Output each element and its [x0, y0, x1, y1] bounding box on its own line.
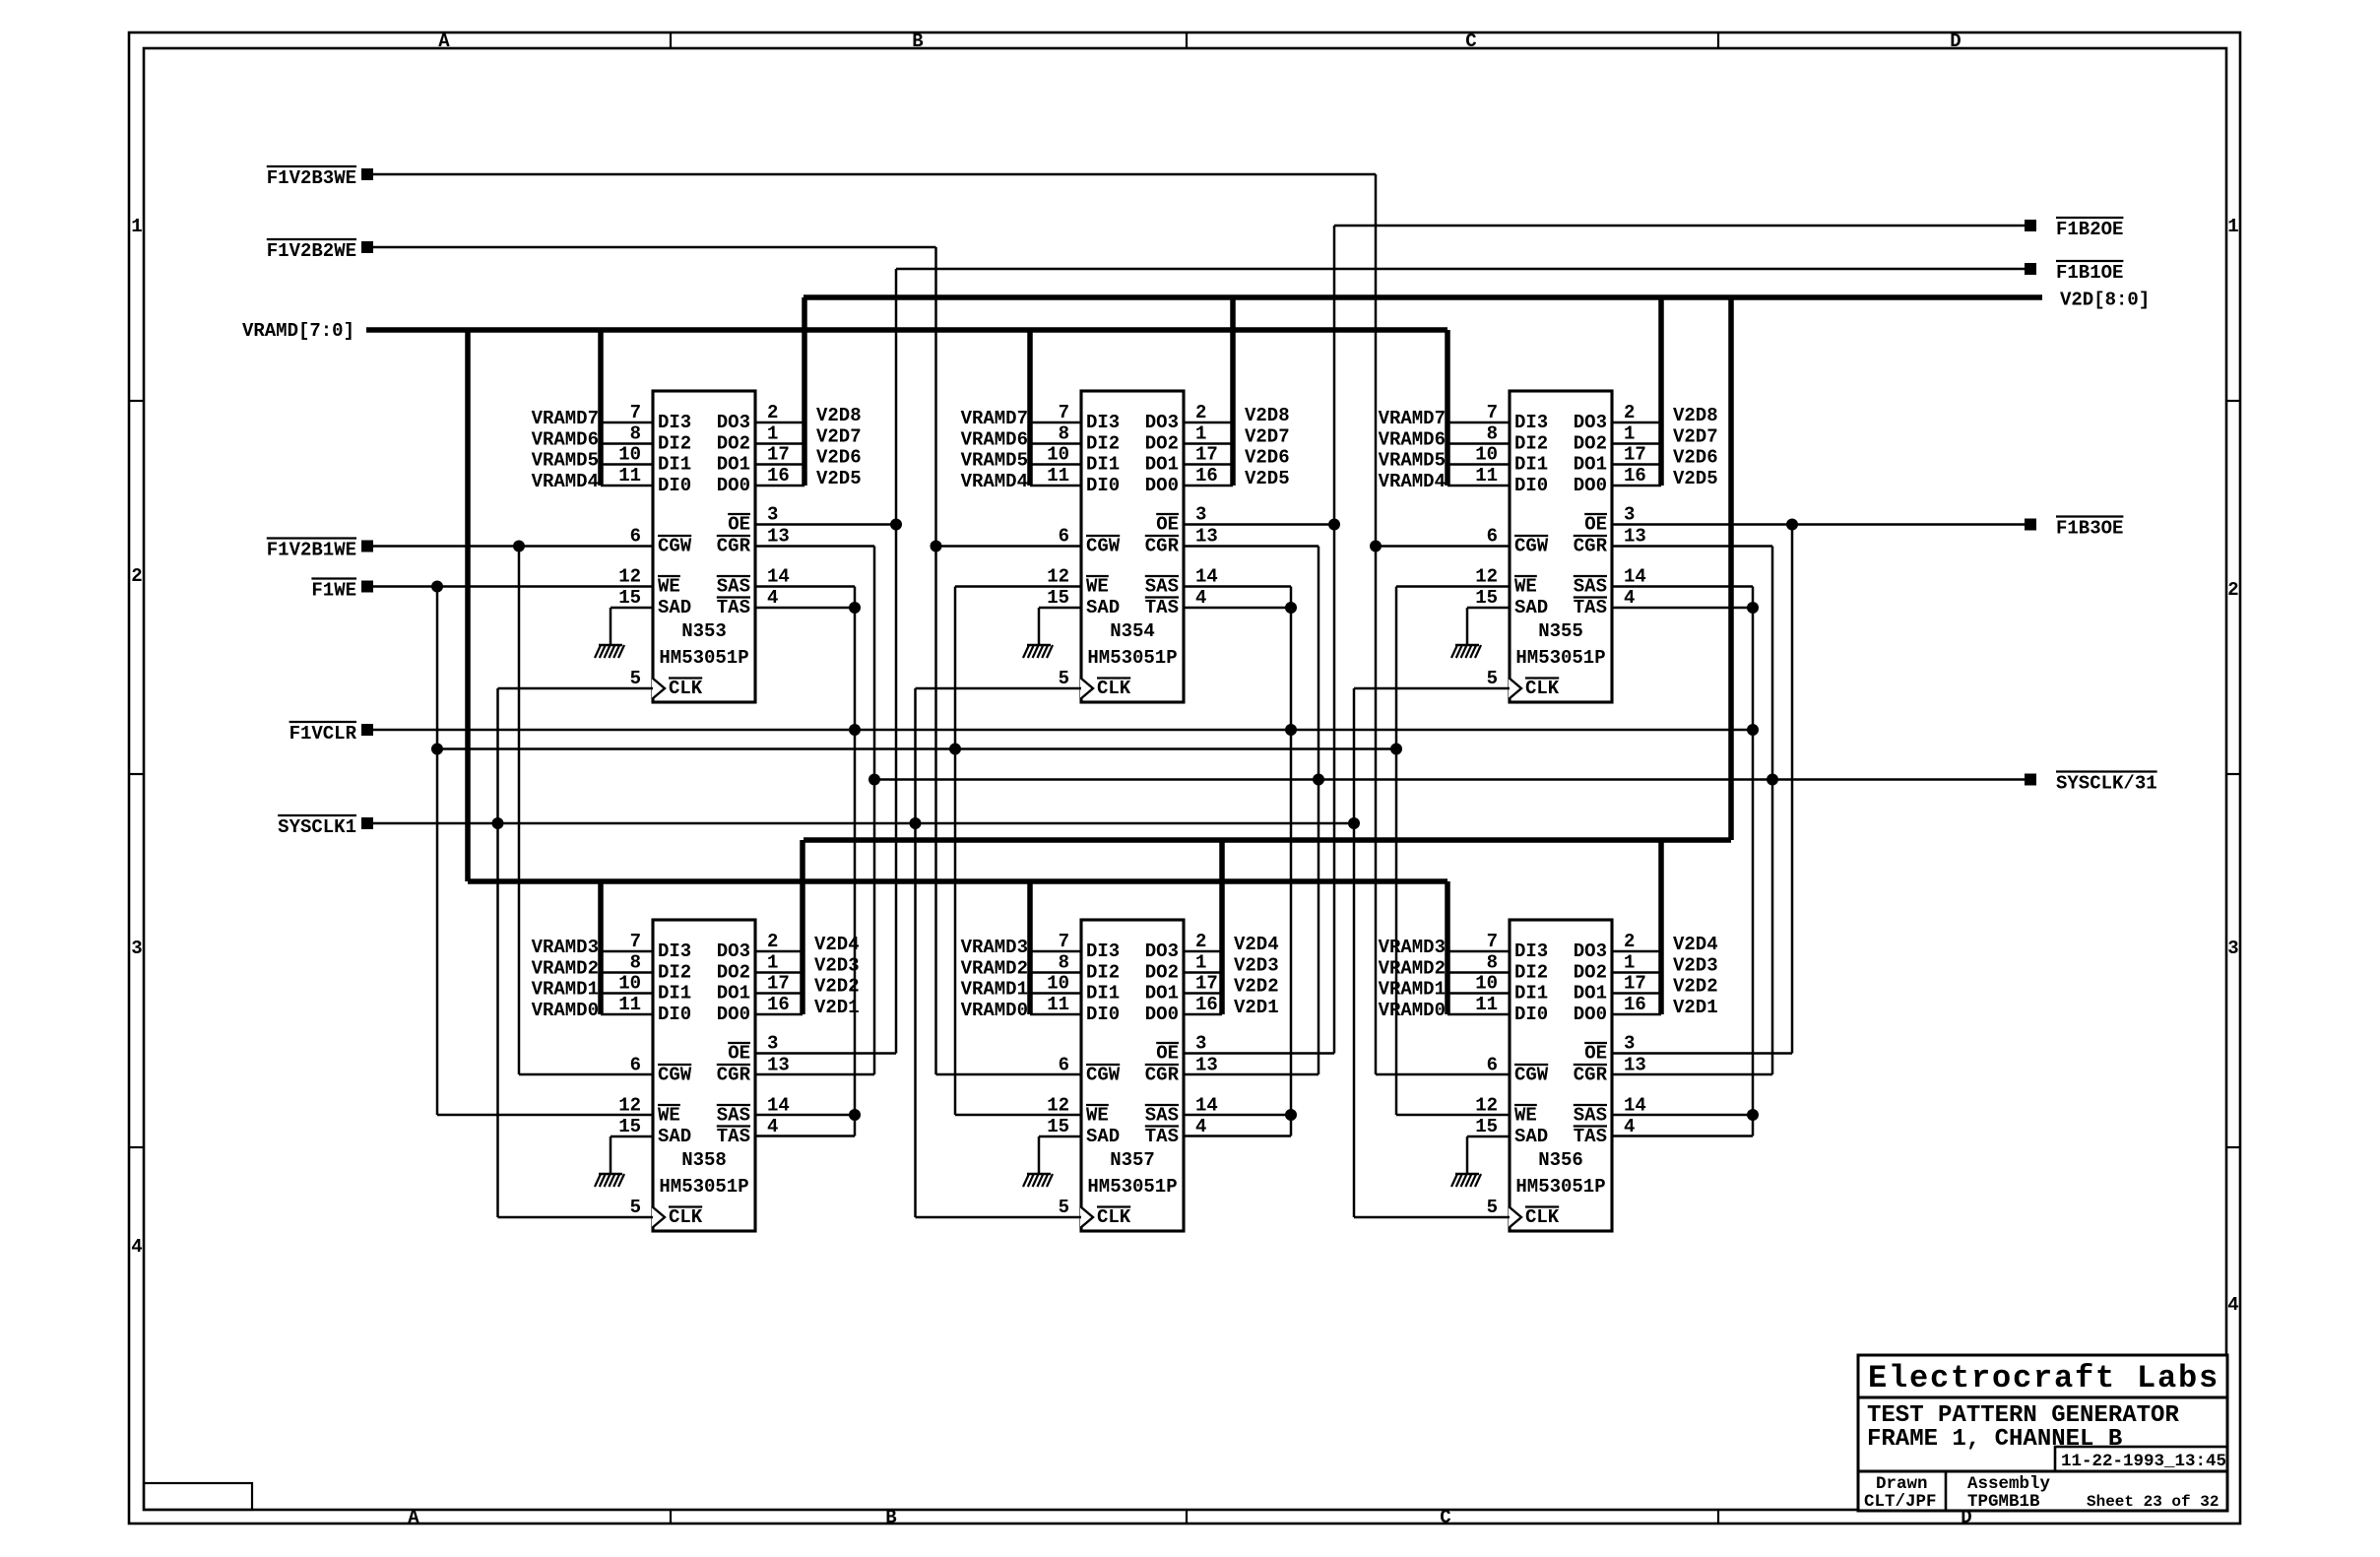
- svg-text:VRAMD[7:0]: VRAMD[7:0]: [242, 320, 354, 342]
- wires VRAMD7..VRAMD4 into N355 DI3..DI0: [1379, 408, 1510, 492]
- svg-text:HM53051P: HM53051P: [659, 1176, 748, 1198]
- svg-text:17: 17: [1195, 444, 1218, 466]
- svg-text:F1V2B1WE: F1V2B1WE: [267, 540, 356, 561]
- svg-text:V2D3: V2D3: [1673, 955, 1718, 977]
- svg-text:10: 10: [618, 444, 641, 466]
- svg-text:DO1: DO1: [1574, 983, 1607, 1005]
- svg-text:VRAMD7: VRAMD7: [532, 408, 599, 429]
- svg-text:SYSCLK1: SYSCLK1: [278, 816, 356, 838]
- svg-text:V2D6: V2D6: [816, 447, 862, 469]
- svg-text:DO2: DO2: [717, 962, 750, 984]
- svg-text:12: 12: [1475, 1095, 1498, 1117]
- svg-text:DI1: DI1: [658, 983, 691, 1005]
- wires VRAMD3..VRAMD0 into N356 DI3..DI0: [1379, 937, 1510, 1021]
- svg-text:VRAMD1: VRAMD1: [961, 979, 1028, 1001]
- svg-text:VRAMD0: VRAMD0: [532, 1000, 599, 1021]
- svg-text:3: 3: [131, 938, 142, 959]
- svg-text:7: 7: [1487, 402, 1498, 423]
- IC N356 HM53051P (bottom row): [1475, 920, 1646, 1231]
- ground at SAD pin of N357: [1023, 1136, 1081, 1187]
- svg-text:FRAME 1, CHANNEL B: FRAME 1, CHANNEL B: [1867, 1426, 2122, 1453]
- svg-text:OE: OE: [728, 514, 750, 536]
- svg-text:VRAMD3: VRAMD3: [1379, 937, 1446, 958]
- svg-text:TPGMB1B: TPGMB1B: [1967, 1492, 2040, 1512]
- svg-text:N358: N358: [681, 1149, 727, 1171]
- svg-text:VRAMD4: VRAMD4: [1379, 471, 1446, 492]
- svg-text:DO0: DO0: [1574, 1004, 1607, 1025]
- svg-text:5: 5: [1487, 668, 1498, 689]
- svg-text:1: 1: [1195, 952, 1206, 974]
- svg-text:5: 5: [1059, 668, 1069, 689]
- svg-text:DO0: DO0: [1145, 1004, 1179, 1025]
- svg-text:V2D[8:0]: V2D[8:0]: [2060, 290, 2150, 311]
- svg-text:VRAMD4: VRAMD4: [532, 471, 599, 492]
- svg-text:15: 15: [1047, 1116, 1069, 1137]
- svg-text:17: 17: [1195, 973, 1218, 995]
- svg-text:SAS: SAS: [1574, 576, 1607, 598]
- svg-text:4: 4: [2227, 1294, 2238, 1316]
- svg-text:13: 13: [1624, 1055, 1646, 1076]
- svg-text:4: 4: [1195, 1116, 1206, 1137]
- svg-text:SAS: SAS: [717, 576, 750, 598]
- svg-text:N357: N357: [1110, 1149, 1155, 1171]
- svg-text:7: 7: [1059, 931, 1069, 952]
- net F1VCLR: flag, rail y=741 tying SAS/TAS columns: [289, 722, 1759, 745]
- svg-text:CGR: CGR: [1574, 536, 1608, 557]
- svg-text:6: 6: [1059, 526, 1069, 548]
- svg-text:1: 1: [131, 216, 142, 237]
- svg-text:VRAMD3: VRAMD3: [532, 937, 599, 958]
- svg-text:DI1: DI1: [658, 454, 691, 476]
- svg-text:DO2: DO2: [1574, 962, 1607, 984]
- wires VRAMD7..VRAMD4 into N353 DI3..DI0: [532, 408, 653, 492]
- svg-text:CGW: CGW: [1514, 536, 1549, 557]
- net SYSCLK1: flag, rail y=836, CLK verticals of all ICs: [278, 688, 1510, 1217]
- svg-text:VRAMD0: VRAMD0: [961, 1000, 1028, 1021]
- svg-text:HM53051P: HM53051P: [1087, 647, 1177, 669]
- svg-text:DI0: DI0: [658, 1004, 691, 1025]
- svg-text:1: 1: [2227, 216, 2238, 237]
- svg-text:V2D6: V2D6: [1245, 447, 1290, 469]
- svg-text:VRAMD1: VRAMD1: [532, 979, 599, 1001]
- svg-text:SAD: SAD: [658, 1126, 691, 1147]
- svg-text:6: 6: [1487, 526, 1498, 548]
- svg-text:8: 8: [1487, 952, 1498, 974]
- wires VRAMD7..VRAMD4 into N354 DI3..DI0: [961, 408, 1081, 492]
- svg-text:VRAMD5: VRAMD5: [961, 450, 1028, 472]
- svg-text:VRAMD5: VRAMD5: [532, 450, 599, 472]
- svg-text:11: 11: [618, 465, 641, 487]
- svg-text:14: 14: [1624, 566, 1646, 588]
- svg-text:SAS: SAS: [1145, 1105, 1179, 1127]
- svg-text:10: 10: [1475, 444, 1498, 466]
- svg-text:15: 15: [618, 587, 641, 609]
- svg-text:V2D3: V2D3: [1234, 955, 1279, 977]
- svg-text:CGR: CGR: [717, 1065, 751, 1086]
- svg-text:DO2: DO2: [1145, 962, 1179, 984]
- svg-text:CGW: CGW: [658, 1065, 692, 1086]
- net F1V2B3WE: flag, rail y=177, drop to CGW of N355/N356: [267, 166, 1510, 1074]
- IC N355 HM53051P (top row): [1475, 391, 1646, 702]
- svg-text:12: 12: [1047, 566, 1069, 588]
- wires N353 DO3..DO0 to V2D8..V2D5: [755, 405, 862, 489]
- svg-text:SAD: SAD: [1086, 1126, 1120, 1147]
- svg-text:V2D7: V2D7: [1245, 426, 1290, 448]
- wires N355 DO3..DO0 to V2D8..V2D5: [1612, 405, 1718, 489]
- svg-text:1: 1: [1624, 423, 1635, 445]
- net SAS/TAS tie column 1 (N353/N358): [755, 587, 861, 1136]
- svg-text:4: 4: [767, 587, 778, 609]
- net SYSCLK/31: CGR pins of all ICs to right flag, rail y=791.5: [755, 547, 2157, 1075]
- svg-text:SAS: SAS: [1145, 576, 1179, 598]
- svg-text:17: 17: [1624, 444, 1646, 466]
- svg-text:14: 14: [767, 566, 790, 588]
- svg-text:11: 11: [1047, 465, 1069, 487]
- svg-text:HM53051P: HM53051P: [1087, 1176, 1177, 1198]
- svg-text:DI1: DI1: [1086, 454, 1120, 476]
- svg-text:DO0: DO0: [717, 1004, 750, 1025]
- svg-text:Assembly: Assembly: [1967, 1474, 2051, 1494]
- net SAS/TAS tie column 2 (N354/N357): [1184, 587, 1297, 1136]
- svg-text:DO2: DO2: [717, 433, 750, 455]
- svg-text:SAD: SAD: [1086, 597, 1120, 618]
- svg-text:VRAMD6: VRAMD6: [1379, 429, 1446, 451]
- svg-text:DO1: DO1: [717, 454, 750, 476]
- svg-text:V2D5: V2D5: [1245, 468, 1290, 489]
- svg-text:C: C: [1465, 31, 1476, 52]
- svg-text:5: 5: [1059, 1197, 1069, 1218]
- svg-text:2: 2: [1624, 931, 1635, 952]
- wires VRAMD3..VRAMD0 into N357 DI3..DI0: [961, 937, 1081, 1021]
- svg-text:12: 12: [1475, 566, 1498, 588]
- IC N353 HM53051P (top row): [618, 391, 790, 702]
- svg-text:DI3: DI3: [658, 941, 691, 962]
- ground at SAD pin of N354: [1023, 608, 1081, 658]
- svg-text:DO2: DO2: [1574, 433, 1607, 455]
- svg-text:V2D1: V2D1: [1234, 997, 1279, 1018]
- svg-text:DO3: DO3: [717, 941, 750, 962]
- svg-text:VRAMD2: VRAMD2: [1379, 958, 1446, 980]
- svg-text:VRAMD5: VRAMD5: [1379, 450, 1446, 472]
- svg-text:DO1: DO1: [1145, 983, 1179, 1005]
- svg-text:OE: OE: [1584, 1043, 1607, 1065]
- svg-text:CGW: CGW: [1514, 1065, 1549, 1086]
- svg-text:15: 15: [1475, 1116, 1498, 1137]
- svg-text:TAS: TAS: [717, 1126, 750, 1147]
- svg-text:11-22-1993_13:45: 11-22-1993_13:45: [2061, 1452, 2226, 1471]
- svg-text:B: B: [912, 31, 923, 52]
- svg-text:CLK: CLK: [1097, 678, 1131, 699]
- IC N357 HM53051P (bottom row): [1047, 920, 1218, 1231]
- svg-text:HM53051P: HM53051P: [1515, 647, 1605, 669]
- svg-text:2: 2: [767, 402, 778, 423]
- svg-text:11: 11: [1475, 465, 1498, 487]
- svg-text:WE: WE: [658, 576, 680, 598]
- svg-text:16: 16: [1195, 994, 1218, 1015]
- svg-text:CGW: CGW: [658, 536, 692, 557]
- svg-text:VRAMD2: VRAMD2: [532, 958, 599, 980]
- svg-text:VRAMD0: VRAMD0: [1379, 1000, 1446, 1021]
- svg-text:8: 8: [630, 423, 641, 445]
- wires N358 DO3..DO0 to V2D4..V2D1: [755, 934, 860, 1018]
- svg-text:DI2: DI2: [1086, 962, 1120, 984]
- svg-text:V2D1: V2D1: [814, 997, 860, 1018]
- svg-text:DI3: DI3: [1086, 412, 1120, 433]
- svg-text:VRAMD6: VRAMD6: [532, 429, 599, 451]
- svg-text:DI2: DI2: [658, 433, 691, 455]
- svg-text:13: 13: [1624, 526, 1646, 548]
- svg-text:N355: N355: [1538, 620, 1583, 642]
- svg-text:C: C: [1440, 1507, 1450, 1528]
- svg-text:4: 4: [1195, 587, 1206, 609]
- svg-text:SAS: SAS: [1574, 1105, 1607, 1127]
- svg-text:WE: WE: [1514, 1105, 1537, 1127]
- svg-text:4: 4: [131, 1236, 142, 1258]
- svg-text:OE: OE: [1584, 514, 1607, 536]
- wires N356 DO3..DO0 to V2D4..V2D1: [1612, 934, 1718, 1018]
- svg-text:N354: N354: [1110, 620, 1155, 642]
- svg-text:17: 17: [767, 444, 790, 466]
- svg-text:DI1: DI1: [1514, 983, 1548, 1005]
- svg-text:13: 13: [1195, 526, 1218, 548]
- svg-text:OE: OE: [1156, 1043, 1179, 1065]
- svg-text:10: 10: [618, 973, 641, 995]
- ground at SAD pin of N358: [595, 1136, 653, 1187]
- svg-text:V2D5: V2D5: [1673, 468, 1718, 489]
- svg-text:4: 4: [1624, 1116, 1635, 1137]
- svg-text:WE: WE: [1086, 1105, 1109, 1127]
- svg-text:DI2: DI2: [1086, 433, 1120, 455]
- svg-text:DI3: DI3: [1514, 941, 1548, 962]
- title text: drawing name: [1867, 1402, 2179, 1453]
- svg-text:WE: WE: [1514, 576, 1537, 598]
- svg-text:2: 2: [2227, 579, 2238, 601]
- svg-text:F1B3OE: F1B3OE: [2056, 518, 2123, 540]
- svg-text:7: 7: [630, 931, 641, 952]
- svg-text:DI2: DI2: [1514, 433, 1548, 455]
- svg-text:V2D6: V2D6: [1673, 447, 1718, 469]
- svg-text:15: 15: [1475, 587, 1498, 609]
- net F1B3OE: OE of N355/N356 to right flag: [1612, 517, 2123, 1054]
- svg-text:14: 14: [767, 1095, 790, 1117]
- net F1V2B2WE: flag, rail y=251, drop to CGW of N354/N357: [267, 239, 1081, 1074]
- svg-text:16: 16: [1624, 994, 1646, 1015]
- svg-text:8: 8: [630, 952, 641, 974]
- svg-text:1: 1: [1195, 423, 1206, 445]
- svg-text:16: 16: [1195, 465, 1218, 487]
- svg-text:VRAMD2: VRAMD2: [961, 958, 1028, 980]
- svg-text:N353: N353: [681, 620, 727, 642]
- svg-text:6: 6: [630, 526, 641, 548]
- svg-text:15: 15: [618, 1116, 641, 1137]
- svg-text:DI0: DI0: [1086, 475, 1120, 496]
- svg-text:TAS: TAS: [717, 597, 750, 618]
- svg-text:OE: OE: [1156, 514, 1179, 536]
- svg-text:V2D2: V2D2: [1673, 976, 1718, 998]
- svg-text:2: 2: [767, 931, 778, 952]
- svg-text:TEST PATTERN GENERATOR: TEST PATTERN GENERATOR: [1867, 1402, 2179, 1429]
- wires VRAMD3..VRAMD0 into N358 DI3..DI0: [532, 937, 653, 1021]
- svg-text:1: 1: [1624, 952, 1635, 974]
- svg-text:CGR: CGR: [1145, 1065, 1180, 1086]
- svg-text:DI3: DI3: [1086, 941, 1120, 962]
- svg-text:DO3: DO3: [1145, 941, 1179, 962]
- svg-text:3: 3: [1624, 504, 1635, 526]
- svg-text:6: 6: [630, 1055, 641, 1076]
- svg-text:2: 2: [1195, 402, 1206, 423]
- svg-text:DI1: DI1: [1514, 454, 1548, 476]
- svg-text:DI2: DI2: [658, 962, 691, 984]
- svg-text:VRAMD4: VRAMD4: [961, 471, 1028, 492]
- svg-text:F1V2B2WE: F1V2B2WE: [267, 240, 356, 262]
- small revision box bottom-left: [144, 1483, 252, 1510]
- svg-text:13: 13: [767, 526, 790, 548]
- svg-text:4: 4: [767, 1116, 778, 1137]
- svg-text:HM53051P: HM53051P: [659, 647, 748, 669]
- svg-text:Electrocraft Labs: Electrocraft Labs: [1868, 1360, 2219, 1396]
- svg-text:VRAMD3: VRAMD3: [961, 937, 1028, 958]
- svg-text:DI0: DI0: [1514, 1004, 1548, 1025]
- ground at SAD pin of N356: [1451, 1136, 1510, 1187]
- svg-text:8: 8: [1059, 423, 1069, 445]
- ground at SAD pin of N355: [1451, 608, 1510, 658]
- svg-text:15: 15: [1047, 587, 1069, 609]
- svg-text:DO1: DO1: [1145, 454, 1179, 476]
- svg-text:3: 3: [1195, 1033, 1206, 1055]
- svg-text:CLK: CLK: [669, 678, 703, 699]
- title block: [1858, 1355, 2227, 1511]
- svg-text:SAS: SAS: [717, 1105, 750, 1127]
- svg-text:12: 12: [618, 1095, 641, 1117]
- svg-text:1: 1: [767, 423, 778, 445]
- svg-text:2: 2: [131, 565, 142, 587]
- svg-text:TAS: TAS: [1145, 1126, 1179, 1147]
- svg-text:5: 5: [630, 668, 641, 689]
- net SAS/TAS tie column 3 (N355/N356): [1612, 587, 1759, 1136]
- svg-text:Sheet 23 of 32: Sheet 23 of 32: [2087, 1493, 2219, 1511]
- svg-text:CGW: CGW: [1086, 1065, 1121, 1086]
- svg-text:HM53051P: HM53051P: [1515, 1176, 1605, 1198]
- svg-text:V2D2: V2D2: [814, 976, 860, 998]
- svg-text:DI0: DI0: [1514, 475, 1548, 496]
- svg-text:CGR: CGR: [1145, 536, 1180, 557]
- title text: date stamp: [2061, 1452, 2226, 1471]
- svg-text:14: 14: [1624, 1095, 1646, 1117]
- svg-text:A: A: [408, 1507, 419, 1528]
- svg-text:CLK: CLK: [1525, 1206, 1560, 1228]
- svg-text:5: 5: [630, 1197, 641, 1218]
- svg-text:V2D7: V2D7: [816, 426, 862, 448]
- svg-text:DO0: DO0: [1145, 475, 1179, 496]
- svg-text:7: 7: [1487, 931, 1498, 952]
- svg-text:3: 3: [767, 504, 778, 526]
- ground at SAD pin of N353: [595, 608, 653, 658]
- svg-text:DO0: DO0: [1574, 475, 1607, 496]
- net F1B1OE: OE of N353/N358 to right flag: [755, 261, 2123, 1054]
- svg-text:DI0: DI0: [1086, 1004, 1120, 1025]
- svg-text:2: 2: [1195, 931, 1206, 952]
- svg-text:11: 11: [1047, 994, 1069, 1015]
- svg-text:6: 6: [1059, 1055, 1069, 1076]
- svg-text:14: 14: [1195, 566, 1218, 588]
- svg-text:V2D8: V2D8: [1245, 405, 1290, 426]
- svg-text:F1VCLR: F1VCLR: [289, 723, 357, 745]
- svg-text:17: 17: [767, 973, 790, 995]
- svg-text:4: 4: [1624, 587, 1635, 609]
- svg-text:V2D7: V2D7: [1673, 426, 1718, 448]
- net F1V2B1WE: flag, wire y=555 to N353 CGW, drop to N358 CGW: [267, 539, 653, 1075]
- svg-text:SAD: SAD: [1514, 597, 1548, 618]
- wires N357 DO3..DO0 to V2D4..V2D1: [1184, 934, 1279, 1018]
- svg-text:13: 13: [767, 1055, 790, 1076]
- svg-text:WE: WE: [1086, 576, 1109, 598]
- svg-text:V2D8: V2D8: [816, 405, 862, 426]
- net F1WE: flag, wire y=595.5 to all WE pins: [311, 579, 1510, 1116]
- svg-text:V2D3: V2D3: [814, 955, 860, 977]
- svg-text:D: D: [1950, 31, 1961, 52]
- svg-text:F1V2B3WE: F1V2B3WE: [267, 167, 356, 189]
- svg-text:F1WE: F1WE: [311, 580, 356, 602]
- svg-text:DI3: DI3: [1514, 412, 1548, 433]
- svg-text:7: 7: [1059, 402, 1069, 423]
- svg-text:10: 10: [1047, 444, 1069, 466]
- svg-text:3: 3: [1195, 504, 1206, 526]
- svg-text:5: 5: [1487, 1197, 1498, 1218]
- svg-text:10: 10: [1475, 973, 1498, 995]
- svg-text:OE: OE: [728, 1043, 750, 1065]
- svg-text:F1B2OE: F1B2OE: [2056, 219, 2123, 240]
- svg-text:VRAMD1: VRAMD1: [1379, 979, 1446, 1001]
- svg-text:2: 2: [1624, 402, 1635, 423]
- svg-text:8: 8: [1059, 952, 1069, 974]
- svg-text:V2D8: V2D8: [1673, 405, 1718, 426]
- svg-text:6: 6: [1487, 1055, 1498, 1076]
- svg-text:DO1: DO1: [1574, 454, 1607, 476]
- svg-text:V2D4: V2D4: [1673, 934, 1718, 955]
- svg-text:Drawn: Drawn: [1876, 1474, 1928, 1494]
- svg-text:V2D2: V2D2: [1234, 976, 1279, 998]
- svg-text:DO3: DO3: [1574, 941, 1607, 962]
- svg-text:N356: N356: [1538, 1149, 1583, 1171]
- svg-text:3: 3: [2227, 938, 2238, 959]
- svg-text:CLK: CLK: [1097, 1206, 1131, 1228]
- svg-text:DI2: DI2: [1514, 962, 1548, 984]
- svg-text:F1B1OE: F1B1OE: [2056, 262, 2123, 284]
- bus V2D[8:0] (thick) with label: [803, 290, 2150, 1015]
- svg-text:SAD: SAD: [658, 597, 691, 618]
- svg-text:7: 7: [630, 402, 641, 423]
- svg-text:DO3: DO3: [1145, 412, 1179, 433]
- svg-text:16: 16: [767, 994, 790, 1015]
- svg-text:13: 13: [1195, 1055, 1218, 1076]
- svg-text:3: 3: [1624, 1033, 1635, 1055]
- svg-text:14: 14: [1195, 1095, 1218, 1117]
- svg-text:WE: WE: [658, 1105, 680, 1127]
- svg-text:V2D1: V2D1: [1673, 997, 1718, 1018]
- svg-text:17: 17: [1624, 973, 1646, 995]
- title text: company: [1868, 1360, 2219, 1396]
- svg-text:SYSCLK/31: SYSCLK/31: [2056, 773, 2157, 795]
- svg-text:V2D5: V2D5: [816, 468, 862, 489]
- IC N354 HM53051P (top row): [1047, 391, 1218, 702]
- svg-text:CGR: CGR: [717, 536, 751, 557]
- svg-text:3: 3: [767, 1033, 778, 1055]
- svg-text:V2D4: V2D4: [1234, 934, 1279, 955]
- svg-text:16: 16: [1624, 465, 1646, 487]
- svg-text:B: B: [885, 1507, 896, 1528]
- svg-text:V2D4: V2D4: [814, 934, 860, 955]
- svg-text:8: 8: [1487, 423, 1498, 445]
